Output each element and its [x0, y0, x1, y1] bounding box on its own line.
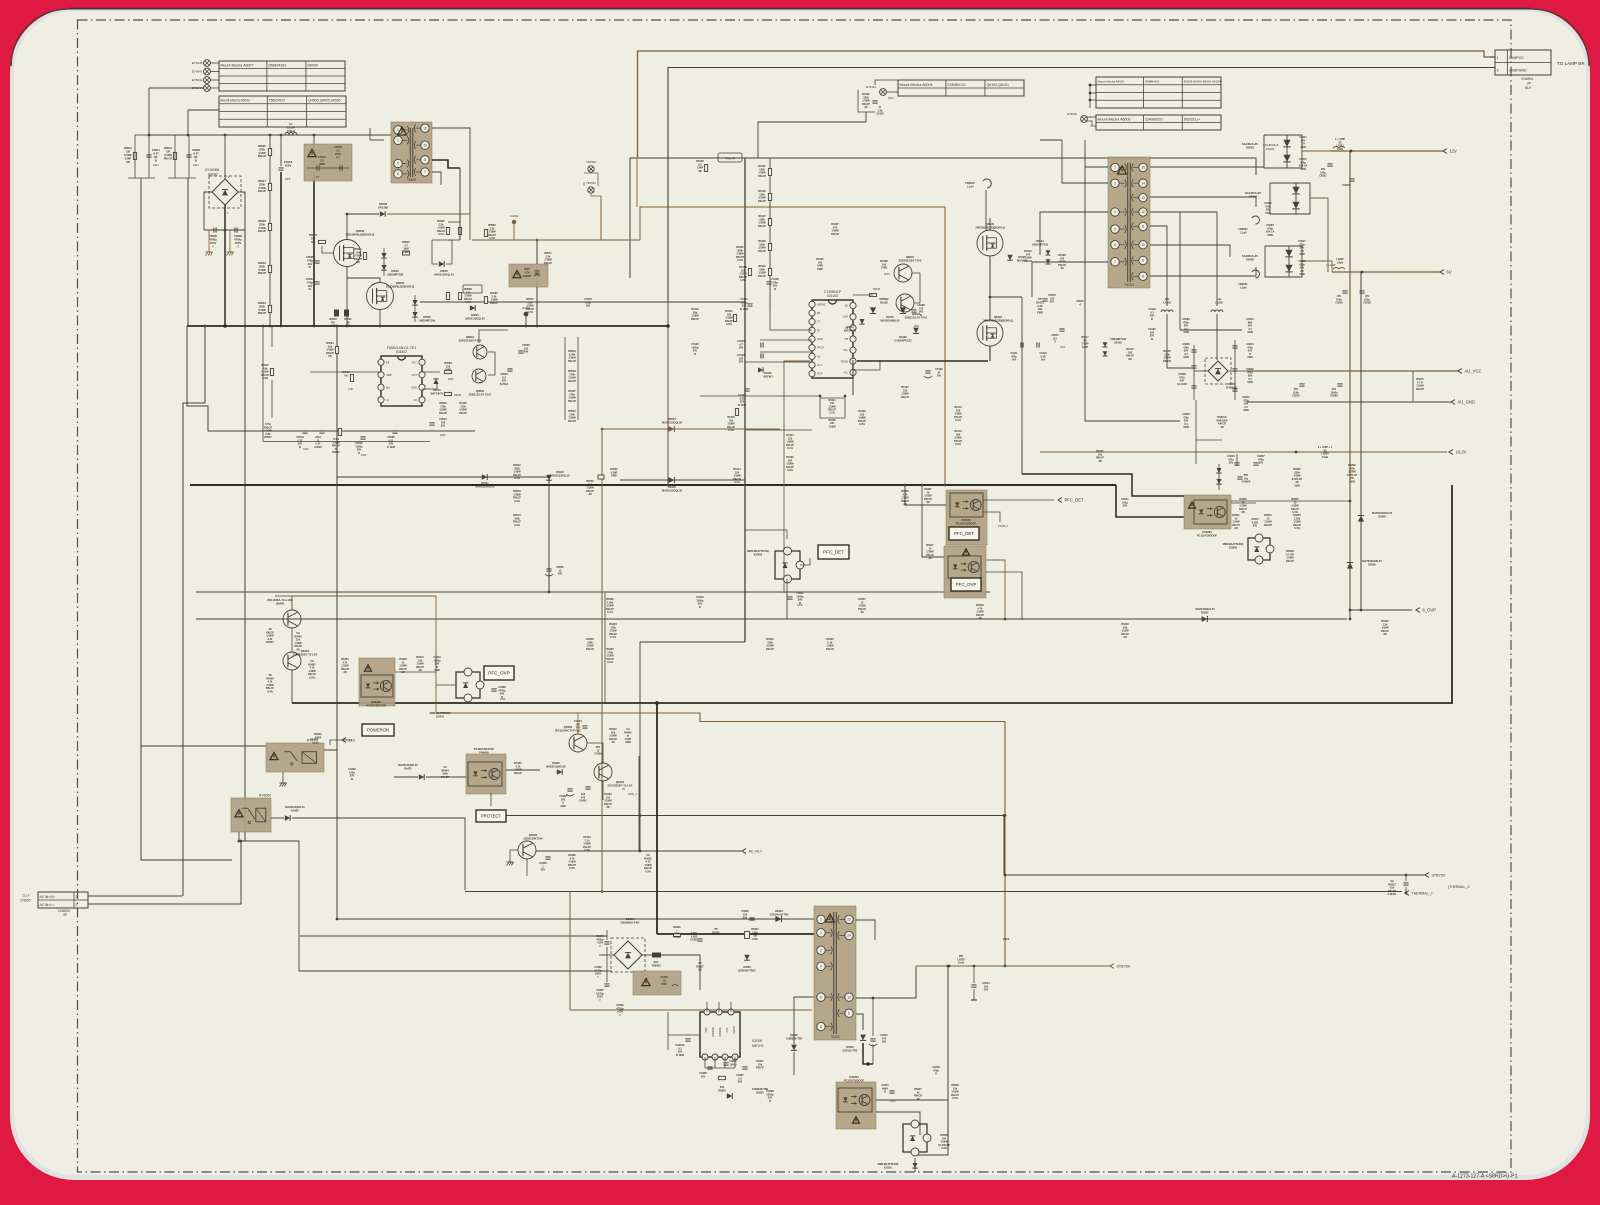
svg-text:R6685: R6685 [332, 451, 340, 454]
svg-text:8: 8 [1142, 274, 1144, 278]
resistor R6552 [586, 480, 594, 496]
resistor R6410 [416, 656, 424, 672]
svg-text:1.1uH: 1.1uH [1239, 230, 1246, 234]
svg-text:TO F: TO F [22, 894, 30, 898]
inductor L6203 [1333, 138, 1345, 151]
svg-text:RY6000: RY6000 [259, 794, 271, 798]
resistor R6419 [976, 604, 984, 620]
capacitor C6304 cluster [616, 1004, 624, 1017]
wire brown y1010 [570, 1009, 812, 1011]
resistor R6513 [513, 490, 521, 503]
svg-text:3N: 3N [296, 648, 299, 651]
wire bus 485 thick [190, 484, 1116, 486]
svg-text:0.1%: 0.1% [465, 301, 471, 304]
wire d6204 out brown [1310, 198, 1328, 272]
svg-text:TP6500: TP6500 [586, 160, 596, 164]
wire r610x ladder [769, 158, 771, 310]
svg-text:14: 14 [1141, 181, 1145, 185]
resistor R6028 [258, 219, 272, 233]
svg-text:B: B [195, 158, 197, 162]
svg-text:CSP: CSP [727, 1027, 729, 1032]
wire brown x1005 down [1004, 722, 1006, 967]
wire ic6402 top [786, 530, 788, 539]
svg-text:CMP: CMP [386, 373, 392, 377]
svg-text:3N: 3N [926, 501, 929, 504]
svg-text:RN-CP: RN-CP [514, 772, 522, 775]
svg-text:FMD: FMD [884, 273, 890, 276]
svg-text:RN-CP: RN-CP [490, 302, 498, 305]
svg-text:MA2S1130GL50: MA2S1130GL50 [476, 485, 495, 488]
wire et6141 drop [758, 112, 866, 158]
wire brown x945 [944, 207, 946, 485]
wire ic6300 vcc loop [668, 1012, 700, 1050]
capacitor C6405 labels [826, 638, 834, 651]
wire relay feed [141, 745, 266, 747]
label PFC_DET small [949, 527, 979, 540]
svg-text:R6302: R6302 [712, 931, 720, 934]
capacitor C6530 [518, 344, 530, 354]
table mount mecha A6005 [1096, 77, 1221, 108]
resistor R6327 cluster [696, 962, 704, 972]
wire hb cap chain [1021, 297, 1023, 440]
svg-text:TP6501: TP6501 [586, 181, 596, 185]
capacitor C6310 [723, 1060, 737, 1066]
svg-text:5: 5 [1114, 227, 1116, 231]
wire ovp opto feed [301, 661, 361, 676]
svg-text:PC123Y22UOOF: PC123Y22UOOF [366, 703, 387, 707]
wire ic6402 feed [745, 529, 787, 531]
shunt regulator IC6200 [1223, 534, 1274, 564]
svg-text:0.3%: 0.3% [787, 469, 793, 472]
resistor R6455 labels [586, 638, 594, 651]
wire cap link [204, 229, 245, 231]
eyelet EY6042 [192, 77, 219, 84]
resistor R6010 [124, 146, 137, 164]
svg-text:1/10W: 1/10W [124, 153, 132, 157]
wire left col x337 [336, 326, 338, 920]
svg-text:B: B [1151, 318, 1153, 321]
svg-text:Q6409: Q6409 [276, 601, 285, 605]
svg-text:16V: 16V [882, 1041, 887, 1044]
svg-text:IC6401: IC6401 [436, 715, 445, 718]
svg-text:100uH: 100uH [287, 129, 295, 133]
wire q pair link [291, 628, 293, 652]
svg-text:A-1273-127-A <S8RD>G-P1: A-1273-127-A <S8RD>G-P1 [1452, 1174, 1518, 1180]
svg-text:C6400F: C6400F [1242, 481, 1251, 484]
label POWERON [362, 724, 394, 736]
wire t6500 sec7 wire [432, 172, 441, 185]
resistor R6317 cluster [756, 1060, 764, 1070]
diode D6302 [786, 1034, 803, 1050]
wire brown tp riser [600, 196, 602, 240]
svg-text:R6303: R6303 [718, 1089, 726, 1092]
ground J gnd relay [280, 779, 287, 787]
svg-text:3N: 3N [1123, 636, 1126, 639]
svg-text:0.3%: 0.3% [645, 870, 651, 873]
wire et6141 wire [886, 91, 898, 93]
svg-text:2SD2114KT146: 2SD2114KT146 [523, 836, 543, 840]
svg-text:0.1%: 0.1% [1294, 527, 1300, 530]
svg-text:B 1608: B 1608 [387, 446, 396, 449]
resistor R6001 [164, 146, 177, 160]
svg-text:1608: 1608 [1247, 331, 1253, 334]
wire q pair join [488, 352, 495, 375]
wire ac row2 [88, 841, 241, 904]
svg-text:BLK: BLK [1525, 86, 1532, 90]
svg-text:1: 1 [1497, 56, 1499, 60]
svg-text:RN-CP: RN-CP [758, 250, 766, 253]
resistor R6538 [444, 362, 453, 381]
wire t6500 pin2 path [369, 128, 371, 140]
capacitor C6020 [186, 148, 200, 167]
capacitor C6100 [738, 389, 750, 407]
resistor R6445 [514, 762, 522, 775]
wire vertical x657 thick [656, 703, 658, 934]
svg-text:1608: 1608 [1300, 168, 1306, 171]
resistor R6109 [758, 240, 772, 253]
wire c6413 to brown [435, 676, 437, 713]
svg-text:10: 10 [1141, 243, 1145, 247]
capacitor C6095 col [1182, 318, 1190, 334]
wire t6500 sec8 thick [432, 160, 460, 168]
wire y477 d6511 [337, 476, 549, 478]
resistor R6420 [901, 490, 909, 506]
wire ey6040 pins [1087, 116, 1096, 118]
svg-text:Mount Mecha A6005: Mount Mecha A6005 [1098, 80, 1125, 84]
wire x639 vertical [638, 756, 640, 851]
svg-text:JL6003: JL6003 [510, 214, 519, 218]
capacitor C6209 col [1246, 368, 1254, 384]
svg-text:12: 12 [847, 918, 851, 922]
svg-text:(THERMAL_G: (THERMAL_G [1448, 885, 1470, 889]
svg-text:C6226: C6226 [1330, 395, 1338, 398]
resistor R6126 labels [858, 410, 866, 426]
svg-text:0.1%: 0.1% [438, 233, 444, 236]
capacitor C6111 [1010, 342, 1023, 361]
svg-text:FMD: FMD [817, 268, 823, 271]
wire ph6402 out2 [983, 512, 1000, 522]
wire q6402 base [510, 850, 518, 858]
svg-text:3P: 3P [63, 913, 67, 917]
svg-text:1608: 1608 [303, 448, 309, 451]
wire q6403 q6404 [587, 743, 603, 763]
table mount mecha A6003 [219, 96, 346, 127]
wire fb to ic [876, 1112, 920, 1135]
capacitor C6118 [872, 101, 884, 116]
wire hv rail right [1021, 440, 1023, 474]
wire t6200 p8 [1150, 267, 1256, 276]
resistor R6551 [598, 468, 618, 479]
transistor Q6002 [469, 369, 492, 396]
svg-text:50V: 50V [441, 425, 446, 428]
svg-text:3N: 3N [1234, 527, 1237, 530]
wire au top rail [1180, 329, 1242, 331]
svg-text:RN-CP: RN-CP [258, 229, 267, 233]
wire filter pair2b [188, 135, 190, 178]
svg-text:NF: NF [154, 155, 158, 159]
svg-text:2: 2 [397, 139, 399, 143]
svg-text:2SC3052EF-T1-LEF: 2SC3052EF-T1-LEF [608, 783, 633, 787]
label Vin-4 [718, 153, 742, 162]
svg-text:25V: 25V [739, 361, 744, 364]
diode MTRN2 D6102 [870, 297, 889, 314]
svg-text:B: B [774, 288, 776, 291]
svg-text:234980C01: 234980C01 [947, 83, 966, 87]
svg-text:EY6042: EY6042 [192, 78, 203, 82]
resistor R6140 [1121, 623, 1129, 639]
wire mos gates [322, 246, 334, 253]
svg-text:268894281: 268894281 [268, 63, 286, 67]
wire pt down [313, 172, 315, 326]
svg-text:0.47: 0.47 [193, 151, 199, 155]
diode D6501 [662, 417, 683, 432]
capacitor C6206 col [1182, 343, 1190, 359]
label GND_J Z5 [622, 787, 637, 796]
resistor R6308b [951, 1084, 959, 1100]
resistor R6252 [1292, 468, 1303, 487]
svg-text:IC6300: IC6300 [752, 1039, 763, 1043]
wire bridge out right [642, 954, 652, 956]
resistor R6123 labels [901, 386, 909, 399]
table mount mecha A6006 [1096, 115, 1221, 130]
svg-text:1000p: 1000p [729, 1063, 737, 1066]
capacitor C6318 cluster [932, 1066, 940, 1076]
svg-text:VSENS: VSENS [817, 303, 826, 306]
transformer T6400 [814, 906, 856, 1040]
wire q6402 down [526, 859, 528, 876]
svg-text:2: 2 [1114, 181, 1116, 185]
wire t6200 p4 left [1040, 212, 1108, 255]
svg-text:1/16W: 1/16W [829, 425, 837, 428]
wire t6200 top left [1040, 139, 1062, 141]
svg-text:PT: PT [336, 155, 340, 159]
diode D6110 [844, 319, 865, 332]
svg-text:0.1%: 0.1% [607, 661, 613, 664]
inductor L6201 [1161, 298, 1173, 312]
capacitor C6228 [1359, 291, 1371, 305]
svg-text:D6202x1+: D6202x1+ [1184, 117, 1200, 121]
wire table2 feed [188, 110, 219, 135]
resistor R6521 [344, 310, 352, 328]
capacitor C6112 [1037, 342, 1047, 361]
svg-text:RN-CP: RN-CP [1024, 260, 1032, 263]
wire brown x602 [601, 429, 603, 892]
capacitor C6199 [924, 368, 943, 378]
svg-text:RN-CP: RN-CP [1264, 524, 1272, 527]
wire tmp rail [1195, 440, 1197, 464]
svg-text:B: B [351, 778, 353, 781]
wire ph6000 out [506, 769, 540, 771]
transformer T6200 [1108, 157, 1150, 288]
wire filter top2 [175, 134, 189, 136]
wire eyelet riser [148, 88, 150, 135]
wire x598 tp drop [597, 177, 599, 186]
wire relay2 wire2 [292, 818, 465, 828]
wire ic6100 left feeds3 [760, 351, 812, 353]
svg-text:C6441: C6441 [579, 800, 587, 803]
resistor R6125 [736, 246, 744, 262]
svg-text:RN-CP: RN-CP [901, 396, 909, 399]
wire brown tp bus y240 [472, 239, 640, 241]
svg-text:9N: 9N [126, 160, 130, 164]
wire ovp section top [292, 595, 436, 597]
svg-text:RN-CP: RN-CP [756, 1067, 764, 1070]
wire bus326 junction dots [204, 325, 206, 327]
svg-text:D6208: D6208 [1378, 515, 1386, 518]
svg-text:RN-CP: RN-CP [439, 412, 447, 415]
svg-text:CHP: CHP [348, 388, 353, 391]
resistor R6440 labels [314, 733, 322, 739]
svg-text:Q6402: Q6402 [529, 833, 538, 837]
svg-text:R6001: R6001 [164, 146, 172, 150]
svg-text:SS: SS [817, 355, 821, 358]
capacitor C6212b col [1242, 396, 1250, 412]
svg-text:RN-CP: RN-CP [586, 648, 594, 651]
transistor Q6402 [518, 833, 543, 859]
output arrow AC_RLY [742, 849, 763, 854]
wire protect stub [490, 793, 492, 806]
relay RY6000 [231, 794, 271, 833]
resistor R6019 [258, 261, 272, 275]
capacitor C6532 [355, 437, 367, 457]
diode D6402 [546, 762, 566, 775]
svg-text:TH6300: TH6300 [652, 964, 662, 967]
wire filter top1 [135, 134, 149, 136]
svg-text:DY150M6: DY150M6 [205, 168, 219, 172]
svg-text:5L: 5L [308, 265, 311, 269]
svg-text:4700p: 4700p [234, 237, 242, 241]
svg-text:2012: 2012 [153, 163, 159, 167]
svg-text:Mount Mecha A6003: Mount Mecha A6003 [221, 99, 250, 103]
svg-text:10uH: 10uH [1322, 456, 1328, 459]
wire right au_gnd rail [1247, 401, 1451, 403]
resistor R6026 [258, 144, 272, 158]
wire t6500 pin2 feed [370, 139, 384, 141]
label D6203 group [1263, 143, 1279, 151]
svg-text:VC1: VC1 [817, 364, 822, 367]
svg-text:1608: 1608 [1349, 480, 1355, 483]
svg-text:3N: 3N [864, 106, 867, 109]
capacitor C6210 [1251, 518, 1259, 528]
svg-text:LAMPGND: LAMPGND [1509, 69, 1527, 73]
svg-text:RN-CP: RN-CP [459, 412, 467, 415]
svg-text:RN-CP: RN-CP [568, 360, 576, 363]
wire t6500 sec12 [432, 128, 470, 240]
wire PFC aux bus y302 [420, 301, 745, 303]
capacitor C6404 [574, 720, 587, 733]
op-amp IC6502 PFC controller [378, 346, 425, 406]
zener D6505 pair [412, 295, 435, 322]
wire ph6200 in thick [1022, 474, 1184, 496]
svg-text:0.3%: 0.3% [859, 423, 865, 426]
wire ic6502 right [422, 384, 437, 389]
svg-text:B: B [935, 1073, 937, 1076]
resistor R6208 [1286, 550, 1294, 563]
svg-text:AU_VCC: AU_VCC [1465, 368, 1482, 373]
wire t6200 p7 left [1032, 262, 1108, 297]
wire y642 link [640, 641, 745, 643]
svg-text:D6203-D6205-D6201-D6204: D6203-D6205-D6201-D6204 [1184, 80, 1221, 84]
wire brown y713 [436, 713, 1005, 722]
svg-text:B: B [155, 158, 157, 162]
optocoupler PH6000 [466, 747, 506, 794]
wire x1085 long [1085, 167, 1180, 421]
capacitor C6205 col [1182, 413, 1190, 429]
svg-text:3N: 3N [343, 671, 346, 674]
wire 16v drop [1021, 440, 1023, 452]
resistor R6134 [786, 434, 794, 450]
capacitor C6306 [596, 935, 609, 948]
wire t6200 p11 drop [1150, 226, 1167, 306]
wire q6001 collector [479, 330, 508, 343]
wire relay2 bottom [239, 832, 606, 971]
svg-text:10: 10 [423, 143, 427, 147]
transformer T6500 [391, 122, 432, 183]
resistor R6301 [745, 928, 760, 941]
resistor R6416 labels [766, 638, 774, 651]
eyelet EY6043 [192, 85, 219, 92]
resistor R6119 [1126, 348, 1134, 361]
svg-text:MA: MA [386, 385, 390, 389]
wire relay gnd [282, 772, 284, 779]
wire eyelet feed [149, 87, 204, 89]
svg-text:RN-CP: RN-CP [831, 233, 839, 236]
output arrow 6_OVP [1416, 607, 1436, 612]
svg-text:D6105: D6105 [1114, 341, 1122, 344]
resistor R6117 [1081, 336, 1089, 349]
capacitor C6312 [869, 997, 888, 1046]
diode pair D6204 [1245, 183, 1310, 214]
wire ic6502 fb [271, 380, 273, 418]
wire ic6100 out to drivers [853, 294, 873, 296]
wire brown y207 [640, 207, 945, 240]
svg-text:D6206: D6206 [1368, 563, 1376, 566]
wire t6400 p8 to d6302 [794, 997, 814, 1075]
svg-text:NF: NF [194, 155, 198, 159]
wire ic6402 bot to bus [786, 593, 788, 619]
diode D6511 [476, 474, 495, 488]
output arrow THERMAL_J [1405, 891, 1433, 896]
wire q6100 chain [989, 256, 991, 320]
svg-text:4700p: 4700p [209, 237, 217, 241]
wire r654x column2 [577, 337, 579, 420]
svg-text:2: 2 [76, 903, 78, 907]
wire gnd stubs2 [229, 230, 231, 248]
wire au cap rails [1193, 345, 1195, 400]
svg-text:T6500: T6500 [407, 178, 416, 182]
svg-text:0.3%: 0.3% [740, 279, 746, 282]
resistor PP R6131 [1036, 297, 1044, 315]
svg-text:9: 9 [848, 1011, 850, 1015]
svg-text:IC6402: IC6402 [754, 552, 763, 556]
diode D6403 [285, 806, 306, 821]
wire t6500 pin1 feed [345, 134, 391, 136]
capacitor C6505 [306, 255, 319, 269]
capacitor C6208 col [1177, 373, 1187, 386]
transistor Q6409 [267, 598, 301, 628]
wire vs bus down [852, 360, 854, 395]
resistor R6120 [862, 93, 870, 109]
svg-text:RN-CP: RN-CP [568, 400, 576, 403]
svg-text:3: 3 [820, 948, 822, 952]
wire stub [1195, 400, 1197, 440]
svg-text:MA2S111(0GL5E: MA2S111(0GL5E [546, 765, 566, 768]
svg-text:VA: VA [344, 374, 347, 377]
svg-text:PFC_OVP: PFC_OVP [488, 671, 509, 676]
wire bus 485 to ph6200 [1116, 485, 1184, 517]
resistor R6511 [354, 248, 367, 264]
wire d6305 gnd [863, 1043, 873, 1066]
